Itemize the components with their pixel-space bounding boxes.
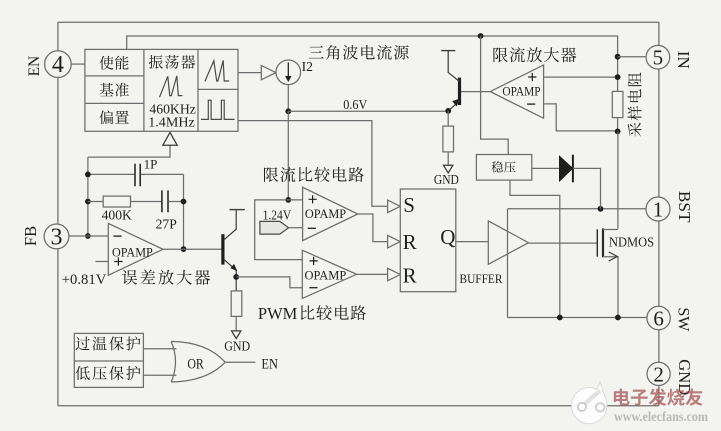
- svg-text:BST: BST: [675, 191, 694, 223]
- wire error amp output to Q1 base: [163, 248, 222, 250]
- svg-text:I2: I2: [302, 59, 314, 74]
- node sense top: [615, 74, 621, 80]
- svg-text:1.4MHz: 1.4MHz: [148, 115, 195, 130]
- op-amp U2 current limit comparator: [303, 187, 358, 240]
- svg-text:GND: GND: [224, 339, 250, 354]
- wire protection row1 to OR gate: [143, 348, 176, 350]
- wire pin4 to enable block: [71, 63, 85, 65]
- svg-text:OPAMP: OPAMP: [305, 269, 347, 283]
- svg-text:Q: Q: [440, 225, 455, 249]
- wire resistor R2 to ground: [235, 316, 237, 331]
- label reference: [100, 83, 129, 97]
- wire 1P right to compensation node: [141, 173, 184, 175]
- svg-text:2: 2: [653, 362, 664, 386]
- svg-text:4: 4: [52, 52, 64, 78]
- reference 1.24V source: [260, 221, 289, 234]
- svg-text:IN: IN: [674, 51, 693, 69]
- svg-text:OPAMP: OPAMP: [502, 85, 540, 99]
- node IN junction: [615, 54, 621, 60]
- wire Q2 emitter node down to resistor: [447, 111, 449, 126]
- node BST junction: [598, 206, 604, 212]
- wire comparator U2 output to latch R input: [358, 214, 388, 242]
- wire comparator plus hook (to both comparators): [255, 200, 303, 260]
- svg-text:R: R: [403, 230, 417, 254]
- wire sense bottom down to NDMOS drain: [617, 131, 619, 228]
- label under-voltage protection: [75, 366, 140, 380]
- diode D1: [559, 156, 573, 182]
- block: enable/reference/bias + oscillator: [85, 49, 238, 131]
- wire protection row2 to OR gate: [143, 374, 176, 376]
- pin 5 circle (IN): [646, 45, 670, 69]
- svg-text:BUFFER: BUFFER: [460, 271, 503, 286]
- node SW-regulator junction: [557, 315, 563, 321]
- op-amp U4 error amplifier: [108, 223, 163, 275]
- wire Q1 emitter to PWM minus input: [236, 277, 302, 288]
- latch R2 input buffer triangle: [388, 268, 401, 281]
- wire oscillator square output to latch S input: [238, 121, 388, 207]
- label triangle-wave current source: [309, 45, 409, 60]
- arrow into oscillator bottom: [163, 132, 177, 145]
- capacitor C1 1P row wire left: [88, 173, 134, 175]
- outer border left edge (through pins 4,3): [57, 22, 59, 406]
- op-amp U1 current limit amplifier (points left): [490, 65, 543, 118]
- capacitor C2 27P plates: [162, 190, 168, 212]
- svg-text:NDMOS: NDMOS: [609, 235, 654, 250]
- transistor M1 NDMOS: [596, 229, 598, 256]
- svg-text:5: 5: [653, 46, 664, 70]
- watermark logo bubble: [572, 381, 607, 424]
- svg-text:PWM: PWM: [258, 304, 298, 323]
- svg-text:EN: EN: [26, 56, 43, 77]
- wire regulator bottom to SW rail: [510, 180, 560, 317]
- resistor R-sense sampling resistor: [612, 91, 623, 117]
- pin 1 circle (BST): [646, 197, 670, 221]
- wire current source to 0.6V node: [287, 85, 289, 112]
- protection block: [74, 333, 143, 387]
- latch R1 input buffer triangle: [388, 235, 401, 248]
- resistor R3 (to GND): [443, 126, 454, 152]
- ground symbol (0.6V branch): [444, 165, 453, 173]
- node 0.6V junction: [285, 108, 291, 114]
- latch S input buffer triangle: [388, 200, 401, 213]
- svg-text:3: 3: [51, 224, 63, 250]
- svg-text:SW: SW: [674, 307, 691, 332]
- svg-text:1: 1: [653, 197, 664, 221]
- square wave output icon: [201, 100, 235, 119]
- node Q2 emitter to 0.6V rail: [445, 108, 451, 114]
- svg-text:0.6V: 0.6V: [343, 97, 367, 112]
- wire 400K to 27P: [131, 201, 162, 203]
- outer border right edge (through pins 5,1,6,2): [658, 22, 660, 406]
- sawtooth output icon: [205, 60, 229, 81]
- wire FB node rail (vertical with 3 nodes): [87, 157, 89, 236]
- svg-text:www.elecfans.com: www.elecfans.com: [614, 409, 708, 424]
- wire IN node to pin 5: [618, 56, 647, 58]
- svg-text:EN: EN: [261, 356, 278, 372]
- label bias: [99, 110, 128, 124]
- OR gate: [171, 341, 225, 382]
- svg-text:S: S: [403, 193, 415, 217]
- wire error amp plus stub: [95, 261, 108, 263]
- svg-text:27P: 27P: [156, 217, 178, 232]
- svg-text:6: 6: [653, 306, 664, 330]
- svg-text:R: R: [403, 264, 417, 288]
- current source I2 circle: [276, 60, 301, 85]
- power bar above Q1: [230, 209, 245, 211]
- wire 400K row left: [88, 201, 103, 203]
- svg-text:400K: 400K: [102, 207, 132, 222]
- outer border bottom edge: [58, 405, 659, 407]
- svg-text:FB: FB: [21, 226, 40, 246]
- wire OR output: [225, 361, 255, 363]
- wire SW rail: [508, 317, 647, 319]
- wire oscillator sawtooth output to buffer: [238, 72, 261, 74]
- wire resistor to ground: [447, 152, 449, 165]
- node Q1 emitter: [233, 274, 239, 280]
- pin 4 circle (EN): [45, 51, 72, 78]
- label over-temperature protection: [75, 336, 140, 350]
- watermark text elecfans: [614, 388, 703, 405]
- pin 3 circle (FB): [44, 224, 69, 249]
- power bar above Q2: [441, 50, 455, 52]
- label enable: [100, 56, 129, 70]
- wire 1.24V to comparator minus: [289, 227, 303, 229]
- svg-text:+0.81V: +0.81V: [62, 272, 107, 288]
- svg-text:1P: 1P: [144, 156, 158, 171]
- transistor Q2 PNP: [458, 78, 461, 105]
- label error amplifier: [122, 270, 210, 285]
- resistor R2 (PWM ramp): [231, 291, 242, 317]
- sense line from top rail through sampling resistor: [617, 57, 619, 132]
- svg-text:OPAMP: OPAMP: [305, 207, 346, 221]
- wire latch Q to buffer: [456, 241, 489, 243]
- ground symbol (ramp branch): [232, 331, 241, 339]
- label current-limit comparator circuit: [264, 167, 364, 182]
- wire 27P right to compensation node: [169, 201, 184, 203]
- node comparator plus junction: [285, 197, 291, 203]
- wire triangle wave down to comparator + node: [287, 111, 289, 200]
- svg-text:GND: GND: [434, 172, 459, 187]
- wire U1 output to PNP base: [461, 91, 490, 93]
- wire regulator to diode anode: [532, 167, 560, 169]
- wire pin 3 FB to error amp: [69, 235, 108, 237]
- resistor R1 400K: [103, 196, 130, 207]
- svg-text:1.24V: 1.24V: [263, 208, 292, 223]
- wire enable-block top to IN node (top rail): [127, 36, 618, 57]
- node: top rail branch to regulator: [478, 33, 484, 39]
- oscillator label: [149, 55, 196, 69]
- wire top rail down to regulator box: [481, 36, 509, 155]
- wire BST node to pin 1: [508, 208, 647, 210]
- wire U1 plus input to sense node: [544, 76, 618, 78]
- compensation vertical wire: [183, 174, 185, 249]
- SR latch block: [400, 189, 456, 292]
- outer border top edge: [58, 21, 659, 23]
- op-amp U3 PWM comparator: [302, 250, 356, 298]
- buffer amplifier triangle: [488, 221, 528, 264]
- wire diode cathode to BST node: [573, 168, 601, 208]
- pin 6 circle (SW): [647, 306, 670, 329]
- wire U1 minus input to sense resistor bottom: [544, 104, 618, 131]
- label sampling resistor (rotated): [628, 73, 642, 137]
- oscillator waveform glyph: [160, 76, 183, 97]
- regulator block (wenya): [476, 155, 531, 181]
- wire 0.6V rail to PNP emitter node: [288, 110, 448, 112]
- pin 2 circle (GND): [647, 362, 670, 385]
- svg-text:OR: OR: [187, 356, 204, 372]
- transistor Q1 NPN: [221, 234, 224, 264]
- wire top row to oscillator sync arrow: [88, 145, 170, 157]
- label current limit amplifier: [493, 47, 576, 62]
- node sense bottom: [615, 129, 621, 135]
- wire BST rail down through buffer to SW rail: [507, 209, 509, 318]
- wire buffer output to NDMOS gate: [529, 242, 597, 244]
- wire PWM comparator output to latch R input: [357, 273, 388, 275]
- buffer triangle to current source: [261, 66, 276, 80]
- node SW-NDMOS source junction: [615, 315, 621, 321]
- capacitor C1 1P plates: [135, 164, 140, 186]
